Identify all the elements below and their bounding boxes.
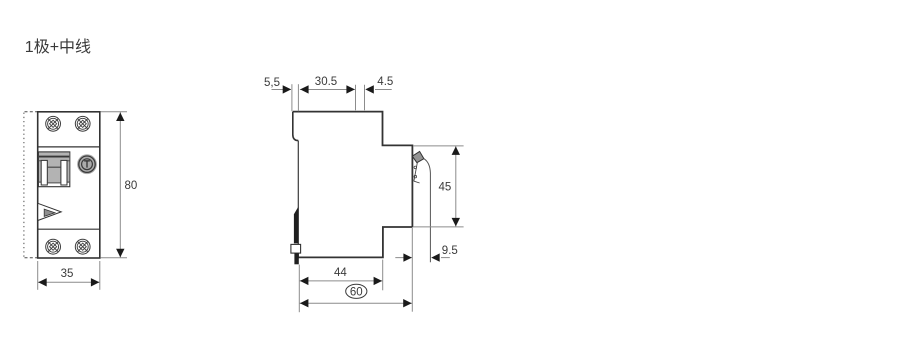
svg-text:35: 35 [61, 268, 74, 280]
dimension 80 (front height) [101, 112, 138, 258]
svg-text:5,5: 5,5 [264, 77, 280, 89]
dimension 4.5 (front step) [365, 76, 394, 110]
side profile outline [293, 112, 413, 258]
dimension 44 (body width) [299, 260, 382, 313]
screw terminal top-right [75, 116, 90, 131]
dimension 5,5 (rear lip) [264, 77, 292, 111]
dimension (60) overall width [299, 228, 412, 312]
dimension 9.5 (front face offset) [395, 245, 458, 262]
front view body outline [38, 112, 100, 258]
front view upper seam line [38, 146, 100, 148]
svg-text:45: 45 [439, 181, 452, 193]
DIN clip lower bar (side view) [294, 253, 298, 264]
toggle lever diamond (side view) [412, 151, 424, 162]
hidden adjacent module dashed outline (front view) [24, 112, 38, 258]
svg-text:4.5: 4.5 [377, 76, 393, 88]
toggle switch (front view) [38, 152, 69, 187]
svg-text:1极+中线: 1极+中线 [25, 38, 91, 56]
dimension 35 (front width) [38, 261, 100, 290]
dimension 30.5 (body depth) [298, 76, 355, 111]
trip indicator triangle [38, 203, 61, 220]
svg-text:30.5: 30.5 [315, 76, 337, 88]
svg-text:60: 60 [350, 286, 363, 298]
test button T [77, 154, 97, 174]
screw terminal top-left [46, 116, 61, 131]
front face curve (side view) [424, 159, 431, 263]
svg-text:80: 80 [125, 180, 138, 192]
screw terminal bottom-left [46, 239, 61, 254]
dimension 45 (front protrusion height) [413, 146, 464, 227]
svg-text:9.5: 9.5 [442, 245, 458, 257]
DIN clip upper bar (side view) [294, 207, 298, 244]
front view lower seam line [38, 228, 100, 230]
DIN clip release tab (side view) [291, 244, 301, 253]
screw terminal bottom-right [75, 239, 90, 254]
svg-text:44: 44 [334, 267, 347, 279]
toggle recess panel (side view) [414, 163, 420, 183]
